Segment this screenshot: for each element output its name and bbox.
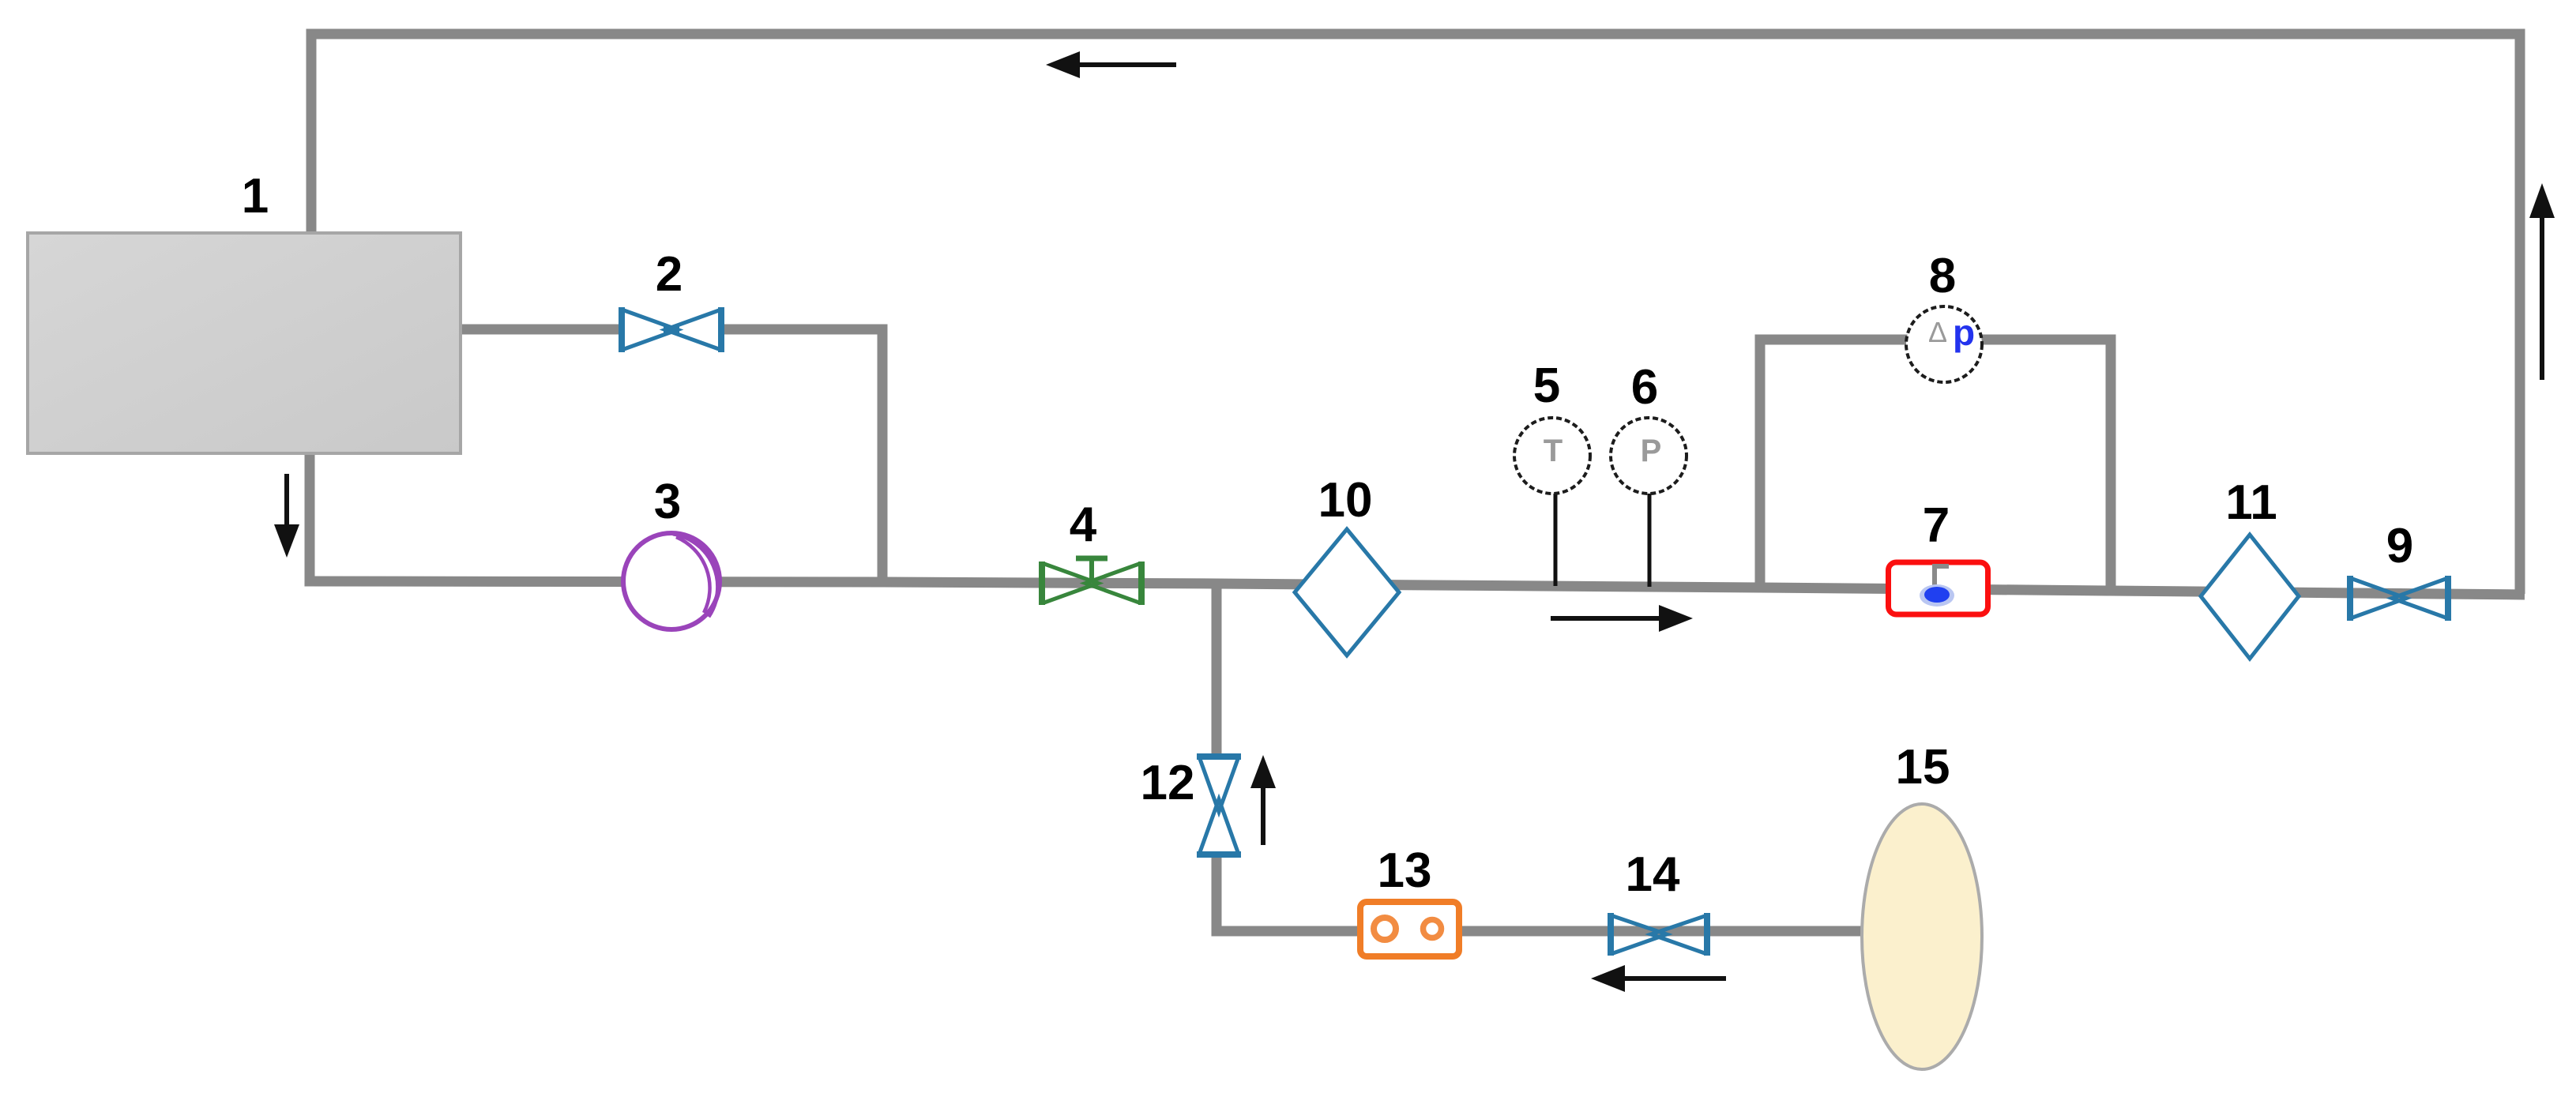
svg-text:12: 12 (1141, 756, 1195, 810)
wire: stem of temperature gauge 5 (1554, 490, 1558, 586)
gauge 6 (pressure) (1611, 418, 1687, 494)
tank 1 (test section) (28, 233, 461, 453)
wire: vertical drop from tank bottom (305, 453, 315, 584)
gauge 8 (differential pressure) (1906, 306, 1982, 382)
wire: differential-pressure bypass loop (1760, 340, 2111, 592)
svg-text:6: 6 (1631, 360, 1658, 415)
svg-text:P: P (1641, 434, 1662, 468)
sensor 7 (red box) (1889, 562, 1988, 614)
svg-text:T: T (1544, 434, 1563, 468)
flow arrow on main line (rightward) (1551, 605, 1693, 632)
svg-text:p: p (1953, 312, 1975, 353)
svg-text:3: 3 (654, 475, 681, 529)
svg-text:11: 11 (2225, 475, 2277, 530)
svg-text:7: 7 (1923, 498, 1950, 553)
svg-text:13: 13 (1378, 843, 1432, 898)
pump 3 (623, 533, 720, 629)
wire: main horizontal supply line (305, 581, 2525, 595)
svg-text:8: 8 (1929, 249, 1956, 303)
wire: stem of pressure gauge 6 (1648, 490, 1652, 587)
valve 4 (green control valve) (1042, 558, 1141, 605)
wire: branch below valve 12 and bottom line to vessel 15 (1217, 855, 1866, 931)
gauge 5 (temperature) (1514, 418, 1590, 494)
valve 2 (622, 307, 721, 352)
svg-text:15: 15 (1896, 740, 1950, 794)
flow arrow on bottom line (leftward) (1591, 965, 1726, 992)
vessel 15 (reservoir ellipse) (1862, 804, 1982, 1069)
flow arrow next to valve 12 (upward) (1250, 755, 1276, 845)
svg-text:1: 1 (242, 169, 269, 223)
svg-text:2: 2 (656, 247, 683, 302)
valve 9 (2350, 576, 2448, 621)
wire: tank outlet through valve 2 and drop to main line (461, 325, 623, 335)
svg-text:5: 5 (1533, 359, 1560, 413)
filter 10 (diamond) (1295, 529, 1399, 655)
flow arrow on right riser (upward) (2529, 183, 2555, 380)
svg-text:14: 14 (1626, 847, 1680, 902)
valve 12 (vertical) (1197, 757, 1241, 854)
filter 11 (diamond) (2201, 535, 2299, 659)
flow arrow on top return line (leftward) (1046, 51, 1176, 78)
valve 14 (1611, 913, 1707, 956)
wire: branch down to lower loop (1212, 584, 1222, 756)
flow arrow below tank (downward) (274, 474, 299, 558)
svg-text:10: 10 (1318, 473, 1373, 528)
flow meter 13 (orange box with two eyes) (1360, 902, 1459, 956)
svg-text:Δ: Δ (1928, 316, 1947, 348)
svg-text:9: 9 (2386, 519, 2413, 573)
svg-text:4: 4 (1070, 498, 1097, 552)
wire: top return pipe with left and right risers (311, 34, 2520, 594)
